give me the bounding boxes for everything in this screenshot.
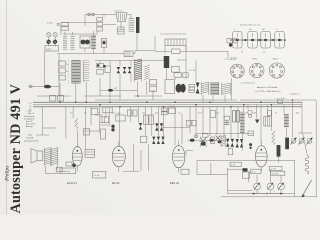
rectifier box under T1 [118, 27, 125, 34]
capacitor block C1 [61, 23, 69, 31]
coil L12 [284, 114, 289, 127]
wire bus B [33, 101, 302, 103]
svg-text:(Lautsprecher): (Lautsprecher) [24, 140, 38, 143]
socket diagram B2 [250, 63, 264, 77]
speaker SP [31, 149, 43, 164]
svg-text:Autosuper ND 491 V: Autosuper ND 491 V [8, 83, 24, 213]
svg-text:EBL21: EBL21 [273, 59, 280, 61]
speaker annotation [24, 134, 38, 143]
drive arrow [272, 39, 275, 42]
trimmer cap X8 [161, 137, 164, 144]
component cluster [150, 80, 157, 101]
trimmer cap X5 [139, 123, 142, 130]
tube V3 EBL21 [173, 141, 185, 173]
wire right edge [221, 101, 317, 198]
box row [174, 73, 188, 77]
wire [162, 127, 191, 129]
comp cluster [127, 110, 137, 116]
choke dark bar 2 [285, 138, 289, 150]
switch knob S2 [53, 40, 57, 44]
tuning rotor dark [176, 84, 186, 93]
transformer T2 winding [129, 18, 135, 32]
capacitor box [103, 107, 112, 113]
wire [49, 15, 155, 54]
capacitor stack C2 [97, 18, 103, 32]
svg-text:zus. 8 µF: zus. 8 µF [277, 98, 286, 100]
wire bus D [33, 106, 302, 108]
svg-text:Anlage: Anlage [26, 125, 34, 128]
terminal box [45, 46, 59, 52]
gang symbol 2 [246, 29, 259, 48]
wire [36, 107, 57, 135]
dark cluster [236, 139, 244, 148]
transistor symbol K2 [267, 183, 274, 194]
fuse F1 [47, 33, 51, 37]
svg-text:1 0,05: 1 0,05 [169, 106, 175, 108]
svg-text:1 mA: 1 mA [150, 90, 155, 93]
trimmer cap X6 [152, 137, 155, 144]
svg-text:EF 22: EF 22 [112, 181, 120, 185]
svg-text:der 6V: der 6V [26, 120, 33, 123]
trimmer cap X7 [157, 137, 160, 144]
trimmer cap X2 [123, 67, 127, 73]
svg-text:6/12V: 6/12V [46, 49, 52, 51]
wire bus C [33, 104, 302, 106]
potentiometer P1 [264, 117, 272, 126]
wire [100, 89, 137, 91]
IF coil L10 [222, 83, 231, 95]
wire [167, 46, 232, 103]
junction dots [59, 95, 293, 107]
svg-text:Entbrumm.: Entbrumm. [61, 170, 71, 173]
drive arrow [245, 39, 248, 42]
fuse F2 [53, 33, 57, 37]
buffer capacitor C4 [124, 51, 133, 57]
svg-text:v. d. Röhrenseite: v. d. Röhrenseite [240, 82, 256, 85]
shield dashed line [68, 60, 70, 85]
svg-text:1M: 1M [253, 113, 256, 115]
antenna coil L4 [72, 60, 81, 84]
capacitor box [100, 117, 109, 123]
svg-text:Abgleich = ZF Bande: Abgleich = ZF Bande [257, 86, 278, 89]
jack J1 [291, 138, 297, 145]
coil L13 [221, 135, 225, 147]
capacitor box tall [101, 129, 106, 139]
cathode box under V3 [181, 169, 189, 174]
capacitor box [84, 129, 90, 136]
dark comp pair [155, 123, 163, 131]
box [243, 172, 250, 178]
antenna socket circle [30, 85, 33, 88]
svg-text:Skalenantrieb von vorn: Skalenantrieb von vorn [240, 24, 260, 27]
small box [268, 110, 272, 115]
transistor symbol K3 [278, 183, 285, 194]
wire [244, 100, 312, 144]
comp [224, 116, 229, 124]
svg-text:W: W [241, 52, 243, 54]
drive arrow [260, 39, 263, 42]
svg-text:an Batterie: an Batterie [24, 117, 35, 120]
svg-text:Stat.: Stat. [28, 134, 33, 137]
small box [248, 131, 254, 135]
svg-text:6,3V: 6,3V [231, 165, 236, 167]
socket diagram B3 [269, 63, 284, 78]
resistor pair boxes [187, 120, 197, 126]
resistor R1 [172, 49, 181, 54]
resistor box with label [116, 113, 125, 121]
margin labels [29, 103, 33, 111]
IF coil L8 [201, 82, 209, 95]
box with value [172, 66, 180, 72]
resistor box [50, 95, 56, 101]
wire bus A [37, 96, 316, 100]
bias box [93, 171, 106, 178]
transistor symbol K1 [254, 183, 261, 194]
connector circle [57, 23, 59, 25]
antenna plug [44, 85, 51, 89]
box pair [140, 136, 146, 142]
switch frame box [165, 80, 174, 94]
resistor R3 zigzag [272, 131, 275, 145]
svg-text:2M: 2M [142, 113, 145, 115]
wire [187, 133, 253, 140]
small box [228, 148, 232, 155]
capacitor box [210, 111, 215, 118]
svg-text:Zünds.: Zünds. [47, 23, 54, 25]
dense detector cluster [190, 134, 222, 147]
wire [228, 169, 253, 190]
switch knob S1 [46, 40, 50, 44]
tube V2 EF22 [112, 142, 125, 172]
page edge line [6, 0, 8, 215]
suppression box label [165, 39, 186, 46]
comp above tube top [227, 39, 237, 47]
oscillator coil L6 [134, 59, 141, 96]
small comp on bus [278, 100, 283, 103]
wire [103, 24, 116, 26]
gang sub labels [241, 51, 266, 54]
trimmer comp [189, 84, 194, 92]
wire [257, 170, 281, 183]
transformer core dark [164, 56, 169, 68]
gang symbol 1 [230, 29, 243, 48]
box with text [271, 171, 285, 175]
IF coil L9 [211, 82, 219, 95]
cathode cluster [56, 162, 76, 172]
capacitor boxes [162, 108, 167, 115]
choke L3 [91, 35, 96, 49]
svg-text:ECH 21: ECH 21 [67, 181, 77, 185]
resistor box [58, 95, 64, 101]
capacitor box [91, 109, 98, 115]
svg-text:4,5 2M: 4,5 2M [189, 70, 195, 72]
capacitor box stack [59, 61, 69, 80]
wire [46, 166, 60, 174]
box with text [230, 162, 241, 166]
capacitor dots [249, 143, 252, 149]
socket diagram B1 [230, 64, 244, 78]
coil L11 [240, 112, 244, 151]
capacitor C5 pair [164, 56, 169, 60]
antenna coil L5 [83, 61, 89, 83]
wire [63, 33, 96, 35]
resistor box pair [211, 137, 215, 144]
svg-text:Steckdose: Steckdose [24, 115, 35, 118]
box with text [250, 169, 261, 173]
gang symbol 4 [273, 29, 286, 48]
svg-text:D=508: D=508 [27, 138, 34, 140]
tube V1 ECH21 [72, 143, 82, 172]
svg-text:12V Anl.: 12V Anl. [272, 172, 280, 175]
output transformer T3 [44, 148, 58, 166]
vibrator G1 [80, 36, 90, 48]
value label row under bus [70, 113, 300, 115]
grid box beside tube [85, 149, 95, 157]
electrolytic dots [111, 125, 114, 132]
svg-text:I u. II 517 = 1000 kHz (±1): I u. II 517 = 1000 kHz (±1) [255, 91, 281, 93]
connector circles [88, 13, 95, 16]
wire [28, 52, 86, 103]
svg-text:EBL 21: EBL 21 [170, 181, 180, 185]
choke L2 [71, 35, 75, 50]
osc beads [97, 64, 106, 67]
jack J3 [307, 138, 313, 145]
choke L1 [63, 35, 67, 50]
padder box stack [97, 63, 111, 74]
svg-text:– Udr. 0: – Udr. 0 [26, 112, 34, 115]
trimmer circles [248, 110, 252, 117]
trimmer cap X4 [196, 83, 200, 94]
svg-text:zur 6V: zur 6V [270, 169, 276, 171]
fuse dark block [243, 168, 248, 171]
antenna arrow [302, 180, 312, 198]
oscillator coil L7 [144, 65, 149, 95]
svg-text:2. ZF 468 kHz: 2. ZF 468 kHz [224, 59, 237, 61]
box with text [269, 166, 282, 170]
svg-text:0,5 µF: 0,5 µF [94, 175, 100, 177]
tube V4 rectifier [255, 141, 267, 172]
hum box [60, 168, 76, 174]
svg-text:für Zündentstörung siehe Anl.: für Zündentstörung siehe Anl. [161, 33, 188, 36]
wire [95, 61, 165, 101]
svg-text:Heiz.: Heiz. [252, 172, 257, 174]
wire [123, 144, 193, 171]
capacitor boxes [169, 106, 176, 113]
gang symbol 3 [259, 29, 272, 48]
trimmer cap X3 [128, 67, 132, 73]
svg-text:Zündkerze: Zündkerze [290, 94, 300, 96]
wire [231, 39, 286, 41]
meter lens [108, 89, 113, 92]
wire frame [197, 160, 295, 193]
antenna lead coil [303, 134, 309, 174]
wire [66, 107, 238, 149]
choke dark bar [277, 145, 281, 163]
box pair [144, 115, 154, 125]
dimension arrows [252, 192, 284, 196]
dark bowtie pair [226, 139, 234, 147]
resistor R2 [75, 118, 78, 129]
jack J2 [299, 138, 305, 145]
diode D1 [255, 120, 259, 124]
electrolytic pair dark [233, 111, 240, 122]
transformer T1 [116, 13, 127, 22]
transformer T2 core [136, 17, 139, 33]
capacitor C3 [102, 39, 107, 48]
trimmer cap X1 [117, 67, 121, 73]
terminal labels [24, 110, 35, 129]
wire [155, 46, 228, 59]
